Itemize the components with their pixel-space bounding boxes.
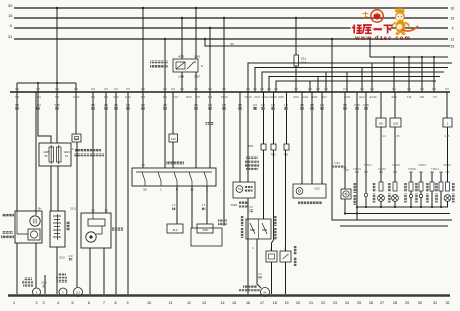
- label relay name line1: [150, 61, 168, 64]
- speedometer symbol: [343, 191, 349, 197]
- svg-text:25: 25: [357, 301, 361, 305]
- wire x422 to rail: [421, 57, 423, 92]
- wire bus31 x165 down to ignition switch: [164, 39, 166, 168]
- node y213 x345: [344, 212, 346, 214]
- wire ladder L4: [269, 77, 440, 93]
- wire x357 down: [356, 207, 358, 220]
- capacitor symbol: [236, 186, 243, 193]
- svg-text:21: 21: [309, 301, 313, 305]
- label ground2 line3: [23, 284, 33, 287]
- wire rail x381 to box80: [380, 92, 382, 118]
- wire starter ground right: [103, 248, 105, 294]
- fusible link 1: [49, 147, 54, 162]
- fuse S11: [294, 55, 299, 66]
- box 108: [197, 224, 213, 233]
- svg-text:0.35: 0.35: [363, 103, 369, 107]
- svg-text:2.0: 2.0: [104, 103, 108, 107]
- svg-text:0.35: 0.35: [395, 135, 400, 138]
- svg-text:4.0: 4.0: [114, 103, 118, 107]
- svg-text:0.5: 0.5: [343, 103, 347, 107]
- bus X: [14, 27, 448, 29]
- capacitor symbol wave: [238, 188, 242, 190]
- wire rail x106 to starter t30: [105, 92, 107, 213]
- bus 30: [14, 7, 448, 9]
- label wire 0.5 red: [250, 209, 253, 212]
- svg-text:10: 10: [147, 301, 151, 305]
- svg-text:30: 30: [451, 7, 455, 11]
- label ignition switch name: [166, 162, 184, 165]
- wire gen to ground rail: [16, 243, 18, 294]
- node bus207 x395: [394, 206, 396, 208]
- connector circle x411: [409, 194, 412, 197]
- mascot feet: [396, 32, 400, 35]
- label main fuse box line1: [75, 149, 101, 152]
- svg-text:www.dzsc.com: www.dzsc.com: [354, 36, 411, 42]
- svg-text:N/3: N/3: [208, 95, 213, 99]
- node bus31-x370: [369, 38, 371, 40]
- ignition terminal ticks: [145, 181, 207, 186]
- oil switch 1 symbol: [269, 254, 275, 259]
- generator box: [15, 211, 42, 243]
- label relay name line2: [150, 65, 168, 68]
- svg-text:T6/3: T6/3: [248, 144, 254, 148]
- svg-text:G5/1: G5/1: [293, 95, 299, 99]
- svg-text:0.35: 0.35: [54, 103, 60, 107]
- wire oil switch 1 to rail: [271, 262, 273, 294]
- svg-text:T04/1: T04/1: [231, 203, 238, 207]
- svg-text:2: 2: [35, 301, 37, 305]
- mascot face: [396, 14, 403, 21]
- resistor cluster x441: [439, 182, 443, 191]
- svg-text:15: 15: [451, 17, 455, 21]
- temp sensor dual box: [246, 219, 271, 239]
- resistor cluster x421: [419, 182, 423, 191]
- svg-text:1.0: 1.0: [208, 103, 212, 107]
- speed sensor box: [293, 184, 326, 198]
- svg-text:H1/1: H1/1: [125, 95, 131, 99]
- watermark seal highlight: [375, 12, 380, 15]
- svg-text:A2/3: A2/3: [35, 95, 41, 99]
- node bus31-x332: [331, 38, 333, 40]
- connector circle x421: [419, 194, 422, 197]
- svg-text:18: 18: [273, 301, 277, 305]
- label temp sensor left vertical2: [241, 228, 244, 238]
- wire gen to ground 2: [35, 243, 37, 288]
- svg-text:16.0: 16.0: [35, 103, 41, 107]
- wire gen internal: [17, 211, 28, 234]
- label starter: [112, 228, 123, 231]
- box 113: [167, 224, 183, 233]
- svg-text:6: 6: [88, 301, 90, 305]
- speed sensor symbol: [296, 188, 303, 195]
- svg-text:32: 32: [445, 301, 449, 305]
- svg-text:E1/4: E1/4: [359, 95, 365, 99]
- label below capacitor line2: [239, 206, 248, 209]
- ignition switch inner bus: [136, 171, 212, 173]
- battery core: [57, 214, 59, 240]
- temp sensor element 1: [250, 223, 255, 234]
- wire rail x263 to T6 connector: [263, 92, 265, 144]
- svg-text:0.35: 0.35: [354, 103, 360, 107]
- label cluster column 5: [426, 183, 429, 192]
- svg-text:105: 105: [393, 122, 398, 126]
- temp sensor element 2: [262, 223, 267, 234]
- svg-text:50: 50: [91, 209, 95, 213]
- box 80: [376, 118, 386, 127]
- svg-text:X: X: [10, 23, 13, 28]
- mascot left arm: [392, 23, 396, 28]
- node bus15-x224: [223, 17, 225, 19]
- wire rail x366 cluster feed: [365, 92, 367, 193]
- T6/2 connector square: [271, 144, 276, 150]
- wire rail x302 to speed sensor: [301, 92, 303, 184]
- wire drop x326: [325, 72, 327, 92]
- svg-text:S/1: S/1: [163, 95, 167, 99]
- node bus207 x441: [440, 206, 442, 208]
- fusible link 2 caps: [58, 145, 60, 164]
- svg-text:G22: G22: [314, 187, 320, 191]
- wire bus30 x57 down through rail to fusebox: [56, 8, 58, 143]
- svg-text:20: 20: [296, 301, 300, 305]
- starter motor brush: [96, 226, 102, 234]
- svg-text:80: 80: [379, 122, 383, 126]
- wire rail x248 to capacitor box: [247, 92, 249, 182]
- svg-text:31: 31: [433, 301, 437, 305]
- wire x332 T26-1 long drop: [332, 39, 452, 220]
- svg-text:53: 53: [451, 45, 455, 49]
- lamp x448: [444, 195, 451, 202]
- svg-text:21.0: 21.0: [41, 281, 47, 285]
- watermark deco left: [363, 12, 369, 18]
- ground 110: [74, 288, 83, 297]
- wire x409 to rail: [408, 57, 410, 92]
- mascot belly: [397, 24, 403, 30]
- svg-text:0.5: 0.5: [271, 103, 275, 107]
- svg-text:W/1: W/1: [141, 95, 146, 99]
- oil switch box 2: [280, 251, 291, 262]
- wire rail x36 to generator B+: [35, 92, 37, 215]
- box 92 inner mark: [75, 137, 79, 140]
- wire battery minus to rail: [56, 247, 58, 294]
- watermark seal inner: [374, 13, 381, 20]
- svg-text:0.5: 0.5: [253, 103, 257, 107]
- svg-text:T26/20: T26/20: [408, 168, 416, 171]
- box 131: [169, 134, 178, 142]
- node bus30-x143: [142, 7, 144, 9]
- svg-text:G1/13: G1/13: [261, 95, 269, 99]
- svg-text:27: 27: [380, 301, 384, 305]
- label throttle tiny: [206, 122, 214, 125]
- mascot crown: [395, 6, 405, 13]
- oil switch box 1: [266, 251, 277, 262]
- svg-text:G6/5: G6/5: [278, 95, 284, 99]
- svg-text:53: 53: [230, 42, 234, 46]
- wire jumper y83: [17, 82, 76, 84]
- svg-text:29: 29: [405, 301, 409, 305]
- mascot mouth: [399, 18, 401, 20]
- node y57-x409: [408, 56, 410, 58]
- label wire 0.5 brown: [259, 276, 262, 279]
- svg-text:15: 15: [232, 301, 236, 305]
- svg-text:Y2/12: Y2/12: [73, 95, 80, 99]
- wire rail x51 to main fuse box: [38, 92, 51, 143]
- starter motor: [86, 232, 96, 242]
- bottom rail: [8, 294, 450, 297]
- svg-text:28: 28: [393, 301, 397, 305]
- svg-text:N1/7: N1/7: [321, 95, 327, 99]
- svg-text:110: 110: [76, 290, 81, 294]
- speedometer box: [341, 189, 351, 199]
- capacitor box: [233, 182, 255, 198]
- label below capacitor line1: [239, 202, 248, 205]
- svg-text:110/4: 110/4: [63, 150, 70, 154]
- wire relay top-right to bus30: [195, 8, 197, 59]
- svg-text:1: 1: [13, 301, 15, 305]
- svg-text:X1/10: X1/10: [221, 95, 228, 99]
- label cluster column 1: [373, 183, 376, 192]
- node busX-x210: [209, 27, 211, 29]
- label ground84 line2: [239, 289, 260, 292]
- temp sensor divider: [258, 219, 260, 239]
- svg-text:1/88: 1/88: [178, 75, 184, 79]
- label ground1 line2: [56, 277, 67, 280]
- svg-text:30: 30: [104, 209, 108, 213]
- wire T6/1 down to oil switch 2: [285, 150, 287, 251]
- connector circle x366: [364, 193, 367, 196]
- speed sensor symbol core: [298, 190, 300, 192]
- label speed sensor: [298, 202, 322, 205]
- svg-text:G5/10: G5/10: [244, 95, 252, 99]
- T6/3 connector square: [261, 144, 266, 150]
- ground 84: [261, 288, 270, 297]
- node bus207 x381: [380, 206, 382, 208]
- ground 2: [33, 288, 41, 296]
- wire rail x447 to box1: [446, 92, 448, 118]
- mascot eyes: [398, 16, 399, 17]
- node jumper x38: [37, 82, 39, 84]
- svg-text:U/1: U/1: [174, 95, 179, 99]
- lamp x381: [378, 195, 385, 202]
- wire rail x224 dead end: [223, 18, 225, 226]
- bus labels right: [451, 7, 455, 49]
- CJK label blobs: [1, 61, 455, 292]
- wire box131 to ignition switch: [172, 142, 174, 168]
- wire T6/2 down to oil switch 1: [272, 150, 274, 251]
- wire relay bottom-right to rail: [195, 72, 197, 92]
- node bus207 x366: [365, 206, 367, 208]
- svg-text:1.0: 1.0: [320, 103, 324, 107]
- svg-text:1.0: 1.0: [284, 103, 288, 107]
- svg-text:0.5: 0.5: [15, 103, 19, 107]
- mascot head: [395, 12, 405, 22]
- wire rail x395 to box105: [394, 92, 396, 118]
- wire drop x362: [361, 68, 363, 93]
- wire bus15 to fuse S11: [295, 18, 297, 55]
- label speedometer vertical: [354, 183, 357, 193]
- wire ladder L3: [262, 72, 444, 92]
- svg-text:8: 8: [114, 301, 116, 305]
- node bus15-x182: [181, 17, 183, 19]
- svg-text:T26/1: T26/1: [334, 162, 341, 165]
- wire fuse1 to battery: [50, 166, 52, 211]
- speedometer symbol core: [345, 193, 347, 195]
- svg-text:X/1: X/1: [91, 95, 95, 99]
- node bus30-x196: [195, 7, 197, 9]
- label battery vertical: [67, 221, 70, 231]
- svg-text:D/6: D/6: [420, 95, 425, 99]
- wire switch 15 to box: [191, 186, 193, 228]
- relay contact: [187, 62, 196, 69]
- fusible link 1 caps: [50, 145, 52, 164]
- svg-text:31: 31: [8, 34, 13, 39]
- node jumper x57: [56, 82, 58, 84]
- wire rail x93 to starter t50: [92, 92, 94, 213]
- svg-text:0.5: 0.5: [300, 103, 304, 107]
- wire oil switch 2 to rail: [285, 262, 287, 294]
- big connector box: [191, 228, 222, 246]
- char yi: [374, 28, 383, 30]
- wire x366 lamp to bus: [365, 197, 367, 207]
- T26 connector ticks: [345, 170, 450, 172]
- relay coil diagonal: [176, 62, 185, 69]
- svg-text:21.0: 21.0: [70, 207, 76, 211]
- regulator box: [28, 229, 40, 240]
- resistor cluster x411: [409, 182, 413, 191]
- wire box105 down to cluster: [394, 127, 396, 182]
- svg-text:T26/17: T26/17: [364, 164, 372, 167]
- wire rail x286 to T6 connector: [286, 92, 288, 144]
- wire lamp x448 to bus: [447, 201, 449, 207]
- wire rail x322 to speed sensor: [321, 92, 323, 184]
- bus labels left: [8, 3, 13, 39]
- svg-text:10A: 10A: [301, 61, 306, 65]
- svg-text:4/93: 4/93: [178, 55, 184, 59]
- svg-text:C1/3: C1/3: [254, 95, 260, 99]
- node bus30-x57: [56, 7, 58, 9]
- svg-text:41/20: 41/20: [311, 95, 318, 99]
- svg-text:Y1/11: Y1/11: [344, 95, 351, 99]
- box 92 fuse link: [72, 134, 81, 142]
- svg-text:T26/18: T26/18: [392, 164, 400, 167]
- node bus31-x165: [164, 38, 166, 40]
- node bus207 x357: [356, 206, 358, 208]
- wire T6/3 to temp sensor box: [263, 150, 265, 219]
- svg-text:0.5: 0.5: [310, 103, 314, 107]
- relay coil: [176, 62, 185, 69]
- small component texts: [36, 42, 449, 294]
- wire drop x318: [317, 77, 319, 93]
- wire jumper x38 leg: [37, 83, 39, 92]
- label ground84 line1: [243, 286, 257, 289]
- watermark seal ring: [371, 10, 383, 22]
- wire rail x240 to capacitor box: [239, 92, 241, 182]
- main fuse box S: [39, 143, 71, 166]
- label speedometer vertical2: [354, 195, 357, 205]
- node y213 x357: [356, 212, 358, 214]
- label near x224 end: [218, 219, 227, 222]
- svg-text:T26/15: T26/15: [353, 168, 361, 171]
- wire fuse S11 to rail: [295, 66, 297, 92]
- wire ground jog 21.0: [44, 275, 46, 294]
- svg-text:6.0: 6.0: [141, 103, 145, 107]
- wire bus31 to line y46: [205, 39, 450, 46]
- label cluster column 6: [435, 183, 438, 192]
- starter solenoid link: [92, 213, 94, 219]
- wire cluster x441: [440, 172, 442, 207]
- svg-text:T26/13: T26/13: [431, 168, 439, 171]
- wire lamp x381 to bus: [380, 201, 382, 207]
- generator symbol: [30, 216, 40, 226]
- node bus207 x432: [431, 206, 433, 208]
- svg-text:1.0: 1.0: [172, 204, 176, 207]
- label above capacitor line4: [246, 168, 258, 171]
- wire cluster bus: [357, 206, 448, 208]
- wire bus31 x370 down: [369, 39, 371, 57]
- wire jumper left leg: [16, 83, 18, 92]
- svg-text:F/4: F/4: [104, 95, 108, 99]
- svg-text:X1/2: X1/2: [113, 95, 119, 99]
- label wire 1.0 under P: [172, 207, 175, 210]
- svg-text:T26/16: T26/16: [378, 168, 386, 171]
- svg-text:0.5: 0.5: [249, 206, 253, 209]
- starter box: [81, 213, 111, 248]
- ignition contact 1: [142, 172, 145, 181]
- ignition contact 5: [204, 172, 207, 181]
- wire bus30 x143 down to ignition switch: [142, 8, 144, 168]
- battery plates: [53, 216, 61, 237]
- label T26-1 note: [332, 166, 344, 169]
- box 1: [443, 118, 452, 127]
- node bus207 x421: [420, 206, 422, 208]
- node bus207 x411: [410, 206, 412, 208]
- svg-text:4.0: 4.0: [382, 135, 386, 138]
- bus 31: [14, 38, 448, 40]
- label above capacitor line1: [246, 157, 258, 160]
- label temp switch right vertical: [274, 216, 277, 226]
- wire ladder L2: [255, 68, 448, 93]
- svg-text:T/2: T/2: [433, 95, 437, 99]
- regulator symbol: [30, 231, 37, 238]
- wire drop x347: [346, 72, 348, 92]
- svg-text:31: 31: [451, 38, 455, 42]
- svg-text:30: 30: [418, 301, 422, 305]
- wire rail x76 to box 92: [75, 92, 77, 134]
- svg-text:E1/19: E1/19: [370, 95, 377, 99]
- label cluster column 2: [388, 183, 391, 192]
- svg-text:4.0: 4.0: [163, 103, 167, 107]
- wire rail x273 to T6 connector: [273, 92, 275, 144]
- wire gauge labels below rail: [15, 103, 369, 110]
- label ground2 line1: [24, 278, 32, 281]
- battery box: [50, 211, 65, 247]
- svg-text:T19: T19: [407, 95, 412, 99]
- label cluster column 4: [415, 183, 418, 192]
- svg-text:131: 131: [171, 137, 176, 141]
- relay box J2: [173, 59, 198, 72]
- svg-text:7: 7: [103, 301, 105, 305]
- wire capacitor to bottom rail: [247, 198, 249, 294]
- char ku: [363, 25, 372, 34]
- resistor cluster x448: [446, 182, 450, 191]
- wire x434 to rail: [433, 57, 435, 92]
- char wei: [352, 25, 362, 34]
- label above capacitor line3: [245, 164, 259, 167]
- svg-text:3: 3: [42, 301, 44, 305]
- svg-text:22: 22: [321, 301, 325, 305]
- wire rail x128 to bottom rail: [127, 92, 129, 294]
- lamp x395: [392, 195, 399, 202]
- svg-text:14: 14: [220, 301, 224, 305]
